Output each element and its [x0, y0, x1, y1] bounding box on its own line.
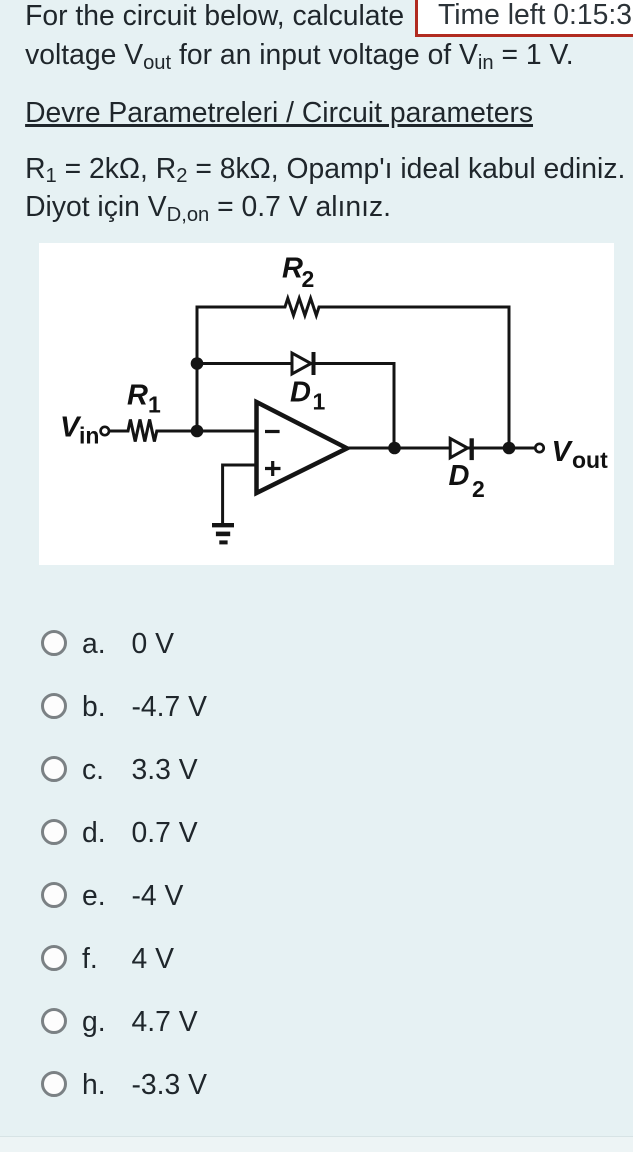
svg-text:2: 2 [472, 476, 485, 502]
svg-text:out: out [572, 447, 608, 473]
svg-text:1: 1 [313, 389, 326, 415]
svg-text:2: 2 [302, 266, 315, 292]
svg-text:D: D [290, 376, 311, 408]
svg-text:V: V [552, 436, 574, 468]
svg-text:in: in [79, 423, 99, 449]
svg-text:D: D [449, 460, 470, 492]
svg-text:R: R [282, 253, 303, 285]
svg-text:R: R [127, 380, 148, 412]
svg-text:1: 1 [148, 392, 161, 418]
